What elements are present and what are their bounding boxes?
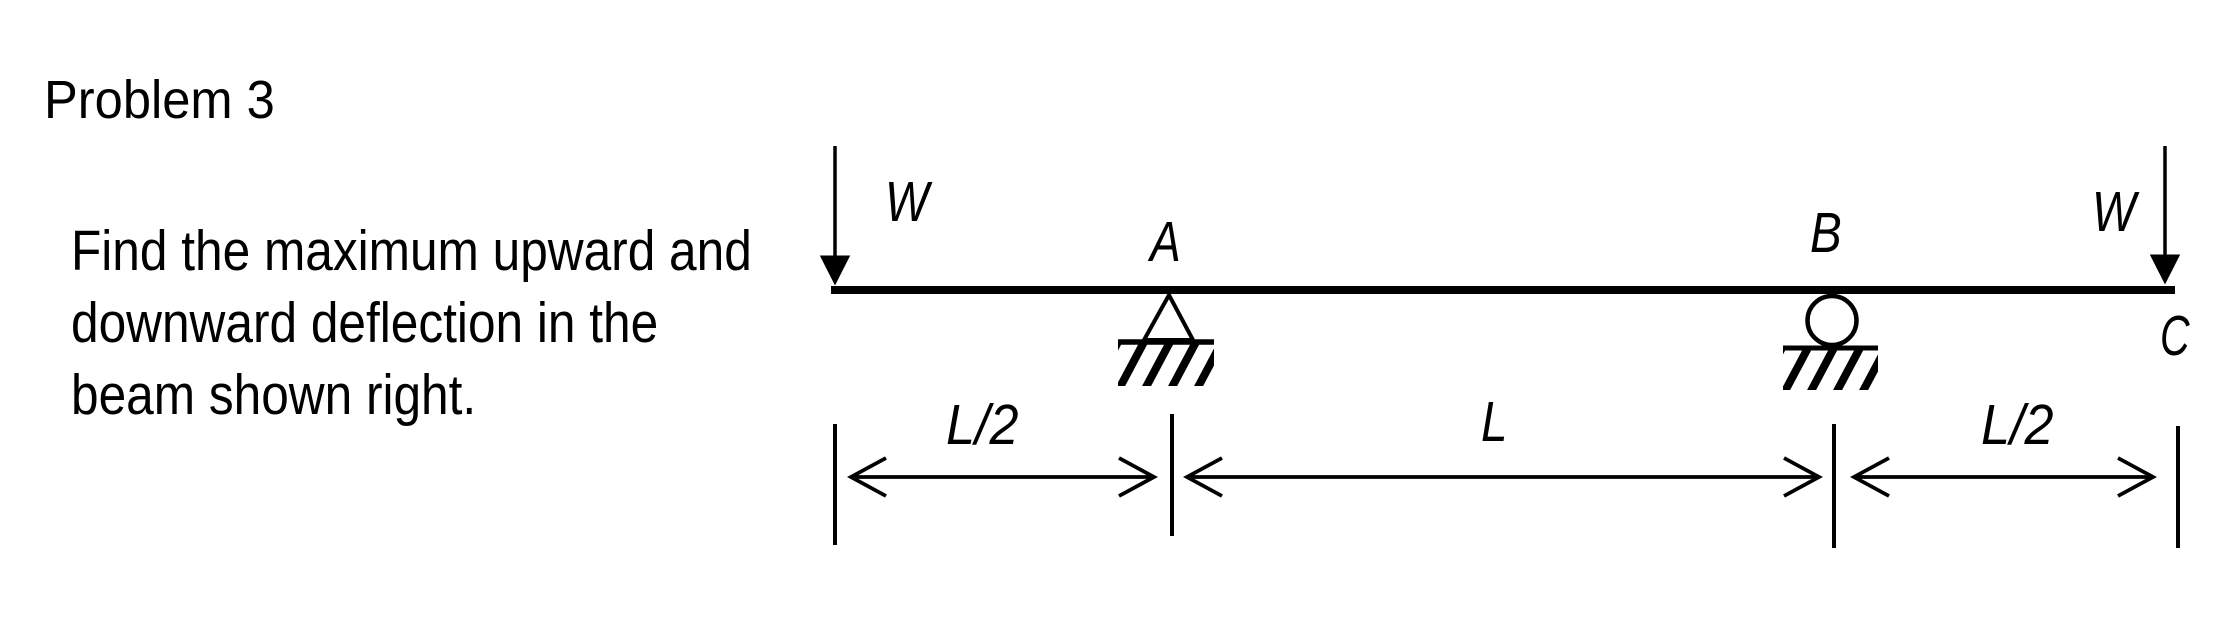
roller support B xyxy=(1808,296,1857,345)
svg-text:L: L xyxy=(1481,390,1508,454)
svg-text:B: B xyxy=(1810,201,1842,265)
ground line B xyxy=(1783,346,1878,351)
beam ABC xyxy=(831,286,2175,294)
svg-text:L/2: L/2 xyxy=(946,393,1019,457)
dimension tick left end xyxy=(833,424,837,545)
ground hatch A xyxy=(1093,342,1222,389)
svg-text:A: A xyxy=(1147,209,1180,273)
pin support A xyxy=(1144,295,1193,340)
title "Problem 3" xyxy=(44,73,275,127)
svg-text:W: W xyxy=(2092,181,2140,245)
dimension arrow L/2 right xyxy=(1854,458,2153,496)
svg-text:C: C xyxy=(2160,303,2191,367)
dimension arrow L/2 left xyxy=(851,458,1154,496)
ground hatch B xyxy=(1758,346,1887,393)
ground line A xyxy=(1118,339,1214,345)
problem statement paragraph xyxy=(71,215,752,431)
svg-text:W: W xyxy=(885,171,933,235)
svg-text:L/2: L/2 xyxy=(1981,393,2054,457)
dimension arrow L xyxy=(1187,458,1819,496)
dimension tick B xyxy=(1832,424,1836,548)
load arrow W left xyxy=(820,146,850,286)
load arrow W right xyxy=(2150,146,2180,285)
dimension tick C xyxy=(2176,426,2180,548)
dimension tick A xyxy=(1170,414,1174,536)
